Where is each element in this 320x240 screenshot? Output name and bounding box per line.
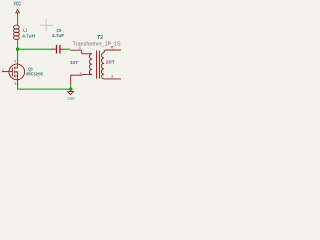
- svg-text:VCC: VCC: [14, 2, 22, 8]
- junction node: [16, 48, 19, 51]
- svg-text:GND: GND: [68, 96, 75, 102]
- wire junction to GND symbol: [70, 89, 72, 92]
- wire L1 to junction to Q3 drain: [17, 39, 19, 62]
- svg-text:IRF3205: IRF3205: [26, 71, 43, 76]
- T2 primary winding: [70, 50, 92, 85]
- background: [0, 0, 121, 111]
- capacitor C9: [52, 45, 64, 54]
- T2 secondary winding: [101, 50, 121, 79]
- svg-text:1: 1: [79, 46, 81, 50]
- transistor Q3 circle body: [9, 64, 25, 80]
- junction node at GND: [69, 87, 72, 90]
- mosfet internals: [9, 65, 18, 80]
- wire VCC to L1: [17, 15, 19, 26]
- wire T2 pin2 to gnd rail: [70, 85, 72, 89]
- svg-text:2: 2: [80, 71, 82, 75]
- Q3 gate pin lead: [2, 71, 9, 73]
- ground symbol: [68, 92, 74, 95]
- Q3 source pin stub: [17, 80, 19, 87]
- svg-text:4: 4: [111, 46, 113, 50]
- svg-text:T2: T2: [97, 35, 103, 41]
- svg-text:3: 3: [14, 82, 16, 86]
- wire C9 to T2: [64, 48, 71, 50]
- svg-text:10T: 10T: [70, 60, 78, 66]
- svg-text:3: 3: [111, 74, 113, 78]
- origin crosshair marker: [40, 19, 53, 32]
- svg-text:4.7uH: 4.7uH: [22, 34, 35, 39]
- VCC arrow symbol: [16, 10, 20, 15]
- svg-text:L1: L1: [23, 28, 28, 34]
- svg-text:20T: 20T: [106, 59, 115, 65]
- mosfet arrow: [15, 71, 17, 73]
- svg-text:2: 2: [14, 59, 16, 63]
- wire Q3 source to GND junction: [18, 87, 71, 89]
- svg-text:1: 1: [2, 68, 4, 72]
- svg-text:4.7uF: 4.7uF: [52, 33, 64, 38]
- T2 core: [97, 51, 100, 79]
- inductor L1: [14, 25, 20, 39]
- wire junction to C9: [18, 48, 53, 50]
- Q3 drain pin stub: [17, 62, 19, 64]
